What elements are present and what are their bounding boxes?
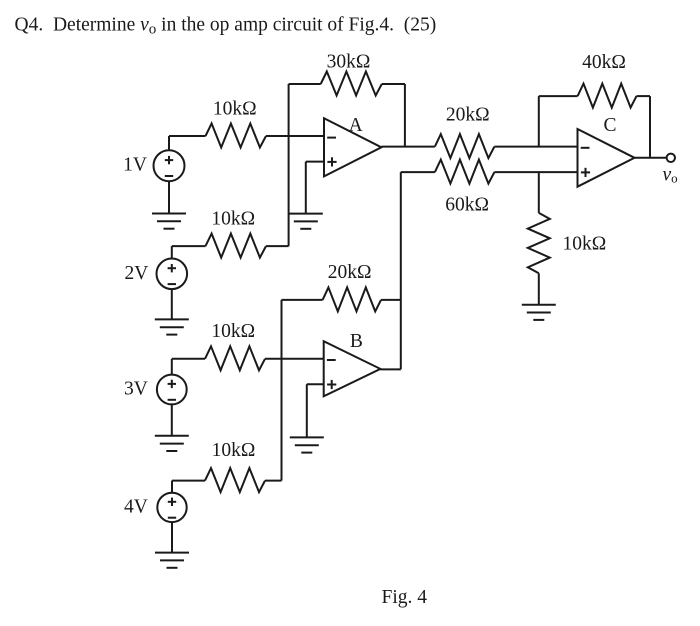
wire C feedback riser (538, 96, 540, 147)
svg-text:Fig. 4: Fig. 4 (382, 587, 428, 608)
svg-text:60kΩ: 60kΩ (445, 195, 489, 216)
ground below V2 (155, 319, 189, 334)
svg-text:1V: 1V (123, 155, 147, 176)
ground at B non-inverting input (290, 437, 324, 452)
ground below R10 (522, 305, 556, 320)
wire B non-inverting input (307, 383, 324, 385)
svg-text:40kΩ: 40kΩ (582, 52, 626, 73)
voltage source V1 (1V) (154, 150, 185, 181)
wire R3 to op-amp B inverting input (265, 358, 324, 360)
wire R7 to op-amp C non-inverting input (494, 171, 577, 173)
resistor R9 40k (C feedback) (578, 84, 637, 108)
svg-text:Q4. Determine vo in the op am: Q4. Determine vo in the op amp circuit o… (15, 14, 437, 37)
op-amp U1 (A) (324, 118, 381, 176)
wire V2 top stem (171, 246, 173, 259)
svg-text:10kΩ: 10kΩ (213, 99, 257, 120)
wire A non-inverting input (306, 161, 324, 163)
wire V3 bottom stem (171, 404, 173, 435)
wire C output (635, 157, 667, 159)
svg-text:3V: 3V (124, 379, 148, 400)
resistor R10 10k (C non-inverting to ground) (528, 213, 550, 273)
output terminal vo (667, 154, 675, 162)
resistor R2 10k (2V input) (206, 234, 267, 258)
resistor R5 30k (A feedback) (321, 72, 382, 96)
ground below V1 (152, 214, 186, 229)
svg-text:10kΩ: 10kΩ (211, 208, 255, 229)
resistor R4 10k (4V input) (205, 468, 265, 492)
resistor R1 10k (1V input) (206, 124, 267, 148)
svg-text:30kΩ: 30kΩ (327, 52, 371, 73)
svg-text:B: B (350, 331, 363, 352)
wire R2 to node A (266, 245, 289, 247)
wire R1 to op-amp A inverting input (266, 135, 324, 137)
wire V1 top stem (168, 136, 170, 150)
wire A feedback top left (289, 83, 321, 85)
ground below V4 (155, 553, 189, 568)
wire C feedback right (637, 95, 651, 97)
svg-text:C: C (603, 115, 616, 136)
node A inverting-input vertical wire (288, 84, 290, 246)
resistor R8 20k (B feedback) (323, 287, 381, 311)
wire B feedback right (381, 299, 401, 301)
voltage source V2 (2V) (157, 259, 188, 290)
resistor R6 20k (A output to C inverting) (435, 134, 495, 158)
wire V1 bottom stem (168, 181, 170, 213)
wire V4 top stem (171, 481, 173, 493)
wire B output riser (400, 172, 402, 369)
wire R6 to op-amp C inverting input (494, 146, 577, 148)
op-amp U3 (C) (578, 129, 635, 187)
svg-text:2V: 2V (124, 263, 148, 284)
voltage source V4 (4V) (157, 493, 186, 522)
wire A output (381, 146, 435, 148)
wire V3 top stem (171, 359, 173, 375)
ground below V3 (155, 436, 189, 451)
svg-text:10kΩ: 10kΩ (212, 440, 256, 461)
wire C non-inverting to R10 (538, 172, 540, 213)
svg-text:10kΩ: 10kΩ (211, 321, 255, 342)
op-amp U2 (B) (324, 341, 381, 396)
wire R4 to node B (265, 480, 282, 482)
wire V4 bottom stem (171, 522, 173, 553)
wire A feedback top right (382, 83, 405, 85)
wire R10 to ground (538, 273, 540, 304)
voltage source V3 (3V) (157, 375, 187, 405)
svg-text:4V: 4V (124, 496, 148, 517)
svg-text:vo: vo (663, 165, 678, 186)
wire B feedback top left (282, 299, 323, 301)
svg-text:A: A (349, 115, 363, 136)
wire B output (380, 368, 400, 370)
svg-text:10kΩ: 10kΩ (563, 234, 607, 255)
resistor R7 60k (B output to C non-inverting) (435, 160, 495, 184)
resistor R3 10k (3V input) (205, 346, 265, 370)
svg-text:20kΩ: 20kΩ (328, 262, 372, 283)
wire V2 bottom stem (171, 289, 173, 319)
svg-text:20kΩ: 20kΩ (446, 105, 490, 126)
node B inverting-input vertical wire (281, 300, 283, 481)
ground at A non-inverting input (289, 214, 323, 229)
